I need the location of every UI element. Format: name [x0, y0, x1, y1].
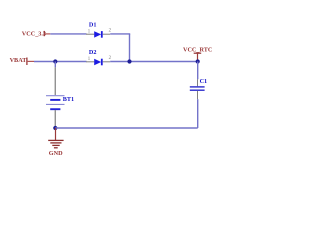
- wire: C1 bottom to bottom rail: [197, 99, 199, 128]
- wire: battery top stub: [54, 62, 56, 68]
- wire: VBAT to D2 anode: [34, 61, 87, 63]
- svg-text:D1: D1: [89, 21, 97, 28]
- junction: battery bottom / ground node: [53, 126, 57, 130]
- wire: VCC_3.3 to D1 anode: [50, 33, 86, 35]
- battery BT1: [46, 67, 65, 126]
- svg-text:D2: D2: [89, 49, 97, 56]
- svg-text:VBAT: VBAT: [10, 57, 28, 64]
- wire: D2 cathode to VCC_RTC node: [110, 61, 198, 63]
- wire: D1 cathode to corner: [110, 33, 130, 35]
- power port VCC_3.3: [22, 31, 51, 38]
- wire: VCC_RTC node down to C1: [197, 62, 199, 80]
- diode D1: [86, 31, 110, 38]
- svg-text:BT1: BT1: [63, 96, 74, 103]
- ground GND: [48, 128, 63, 157]
- wire: bottom rail battery to C1: [55, 127, 197, 129]
- svg-text:VCC_3.3: VCC_3.3: [22, 31, 46, 38]
- capacitor C1: [190, 79, 205, 99]
- wire: vertical drop from D1 row to D2 row: [129, 34, 131, 62]
- junction: battery top node: [53, 59, 57, 63]
- diode D2: [86, 59, 110, 66]
- svg-text:C1: C1: [200, 78, 208, 85]
- junction: VCC_RTC node: [196, 59, 200, 63]
- power port VBAT: [10, 57, 34, 65]
- power port VCC_RTC: [183, 47, 212, 60]
- junction: D1/D2 merge node: [127, 59, 131, 63]
- svg-text:GND: GND: [49, 150, 63, 157]
